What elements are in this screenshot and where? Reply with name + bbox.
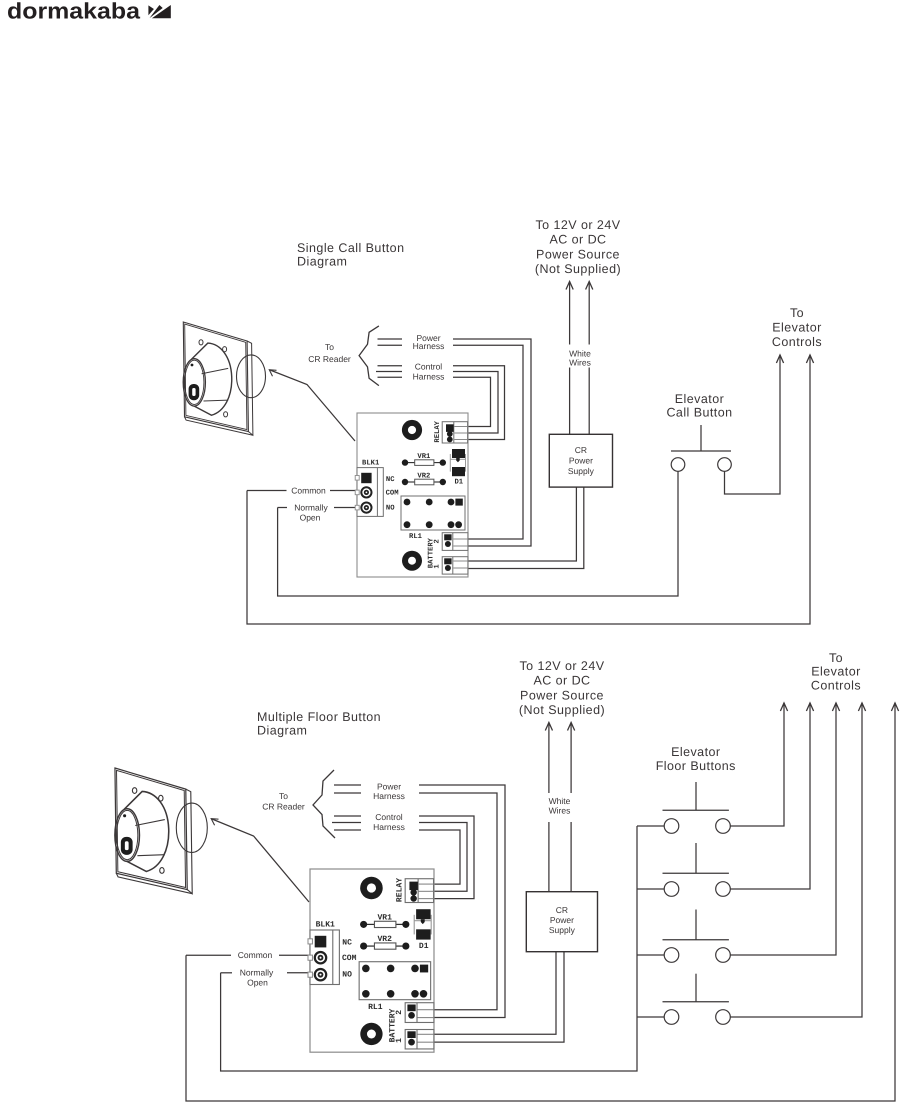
arrowhead white wire 2 [586, 282, 593, 290]
PCB control board U1 (multiple) [308, 869, 434, 1052]
svg-text:Common: Common [238, 950, 273, 960]
svg-text:Harness: Harness [373, 822, 405, 832]
wire: Normally Open run to call button [278, 471, 678, 596]
wire: control harness 3 to RELAY pin 1 [453, 377, 491, 426]
control harness stub 1 (multiple) [334, 815, 361, 817]
pointer arrowhead (multiple) [211, 819, 218, 826]
svg-text:Power Source: Power Source [536, 247, 620, 261]
svg-text:CR Reader: CR Reader [262, 802, 305, 812]
wire: white wire 1 (CR power supply to power source) [569, 282, 571, 435]
svg-text:Wires: Wires [549, 805, 571, 815]
wire: control harness 2 to RELAY pin 2 [453, 372, 498, 434]
svg-text:To: To [325, 342, 334, 352]
wire: white wire 1 (multiple) [548, 723, 550, 892]
wire: power harness 1 to BATTERY 2 pin 2 (multiple) [419, 785, 505, 1018]
wire: floor button 2 to elevator controls 2 [730, 703, 810, 889]
wire: power harness 2 to BATTERY 2 pin 1 (multiple) [419, 793, 497, 1010]
svg-text:To 12V or 24V: To 12V or 24V [535, 218, 620, 232]
svg-text:Multiple Floor Button: Multiple Floor Button [257, 710, 381, 724]
pointer arrowhead [269, 370, 276, 377]
svg-text:Controls: Controls [811, 679, 861, 693]
svg-text:AC or DC: AC or DC [533, 674, 590, 688]
svg-text:To 12V or 24V: To 12V or 24V [519, 659, 604, 673]
control harness stub 3 [378, 376, 403, 378]
elevator floor button 1 [695, 782, 697, 810]
wire: BATTERY 1 pin 1 to CR power supply (multiple) [434, 952, 556, 1035]
svg-text:Harness: Harness [373, 791, 405, 801]
svg-text:CR Reader: CR Reader [308, 354, 351, 364]
harness brace to CR Reader [359, 326, 379, 386]
svg-text:dormakaba: dormakaba [7, 0, 141, 24]
svg-text:Wires: Wires [569, 358, 591, 368]
label White Wires [567, 345, 593, 368]
arrowhead elevator controls 2 [806, 703, 813, 711]
arrowhead elevator controls 5 [891, 703, 898, 711]
svg-text:(Not Supplied): (Not Supplied) [535, 262, 621, 276]
svg-text:To: To [790, 306, 804, 320]
svg-text:Open: Open [247, 978, 268, 988]
svg-text:Controls: Controls [772, 335, 822, 349]
PCB control board U1 (single call) [355, 413, 468, 577]
magnifier ellipse [237, 355, 266, 398]
card reader (single call) [183, 322, 253, 435]
svg-text:Supply: Supply [568, 466, 595, 476]
svg-text:White: White [549, 796, 571, 806]
arrowhead white wire 1 [566, 282, 573, 290]
wire: BATTERY 1 pin 2 to CR power supply [468, 487, 584, 568]
wire: COM terminal to Common lead [330, 490, 357, 492]
svg-text:CR: CR [575, 445, 587, 455]
svg-text:Elevator: Elevator [772, 321, 821, 335]
power harness stub 1 (multiple) [334, 784, 361, 786]
svg-text:Normally: Normally [240, 968, 274, 978]
label White Wires (multiple) [546, 793, 573, 822]
wire: BATTERY 1 pin 2 to CR power supply (multiple) [434, 952, 564, 1042]
arrowhead elevator controls 3 [832, 703, 839, 711]
wire: call button right to elevator controls left [725, 355, 781, 494]
svg-text:Elevator: Elevator [675, 392, 724, 406]
control harness stub 2 (multiple) [332, 822, 361, 824]
elevator call button switch [700, 425, 702, 451]
wire: white wire 2 [588, 282, 590, 435]
svg-text:Single Call Button: Single Call Button [297, 241, 404, 255]
wire: Common run down and right to elevator controls [247, 355, 810, 624]
dormakaba logo mark [148, 5, 154, 15]
wire: white wire 2 (multiple) [570, 723, 572, 892]
harness brace to CR Reader (multiple) [313, 770, 335, 838]
svg-text:To: To [829, 651, 843, 665]
svg-text:Elevator: Elevator [811, 665, 860, 679]
svg-text:Power Source: Power Source [520, 688, 604, 702]
pointer line from PCB to reader (multiple) [212, 819, 309, 902]
power harness stub 2 [378, 344, 403, 346]
arrowhead white wire 1 (multiple) [545, 723, 552, 731]
svg-text:Harness: Harness [413, 372, 445, 382]
svg-text:Diagram: Diagram [257, 724, 307, 738]
magnifier ellipse (multiple) [176, 803, 207, 852]
svg-text:Control: Control [415, 362, 443, 372]
wire: control harness 3 to RELAY pin 1 (multiple) [419, 830, 460, 884]
arrowhead elevator controls 4 [858, 703, 865, 711]
wire: floor button 3 to elevator controls 3 [730, 703, 836, 955]
control harness stub 2 [376, 371, 402, 373]
wire: power harness 2 to BATTERY 2 pin 1 [453, 345, 523, 539]
svg-text:AC or DC: AC or DC [549, 233, 606, 247]
wire: Normally Open run to floor button bus [221, 826, 637, 1071]
elevator floor button 3 [695, 910, 697, 940]
elevator floor button 4 [695, 974, 697, 1002]
svg-text:Power: Power [550, 915, 574, 925]
svg-text:(Not Supplied): (Not Supplied) [519, 703, 605, 717]
control harness stub 1 [378, 365, 403, 367]
wire: Common run bottom bus [186, 703, 895, 1101]
svg-text:Floor Buttons: Floor Buttons [656, 759, 736, 773]
wire: control harness 1 to RELAY pin 3 [453, 366, 505, 440]
power harness stub 1 [378, 338, 403, 340]
svg-text:Power: Power [569, 456, 593, 466]
svg-text:Supply: Supply [549, 925, 576, 935]
wire: floor button 4 to elevator controls 4 [730, 703, 862, 1017]
power harness stub 2 (multiple) [334, 792, 361, 794]
wire: NO terminal to Normally Open lead [334, 507, 357, 509]
svg-text:Open: Open [300, 512, 321, 522]
svg-text:Normally: Normally [294, 502, 328, 512]
svg-text:CR: CR [556, 905, 568, 915]
elevator floor button 2 [695, 843, 697, 873]
wire: power harness 1 to BATTERY 2 pin 2 [453, 339, 531, 546]
wire: floor button 1 to elevator controls 1 [730, 703, 784, 826]
control harness stub 3 (multiple) [334, 829, 361, 831]
svg-text:To: To [279, 791, 288, 801]
wire: control harness 2 to RELAY pin 2 (multiple) [419, 823, 467, 892]
CR Power Supply box (multiple) [526, 892, 597, 952]
card reader (multiple) [115, 768, 192, 894]
wire: BATTERY 1 pin 1 to CR power supply [468, 487, 576, 561]
svg-text:Control: Control [375, 812, 403, 822]
CR Power Supply box [549, 434, 612, 487]
arrowhead elevator controls 1 [780, 703, 787, 711]
pointer line from PCB to reader [270, 370, 355, 441]
svg-text:Call Button: Call Button [666, 406, 732, 420]
wire: COM terminal to Common lead (multiple) [279, 954, 310, 956]
svg-text:Diagram: Diagram [297, 255, 347, 269]
arrowhead white wire 2 (multiple) [568, 723, 575, 731]
svg-text:Elevator: Elevator [671, 745, 720, 759]
arrowhead to elevator controls right [806, 355, 813, 363]
svg-text:Common: Common [291, 485, 326, 495]
wire: NO terminal to Normally Open lead (multiple) [287, 972, 310, 974]
wire: control harness 1 to RELAY pin 3 (multiple) [419, 816, 474, 899]
arrowhead to elevator controls left [776, 355, 783, 363]
wire: bus stubs to floor buttons [637, 825, 664, 827]
svg-text:Harness: Harness [413, 341, 445, 351]
